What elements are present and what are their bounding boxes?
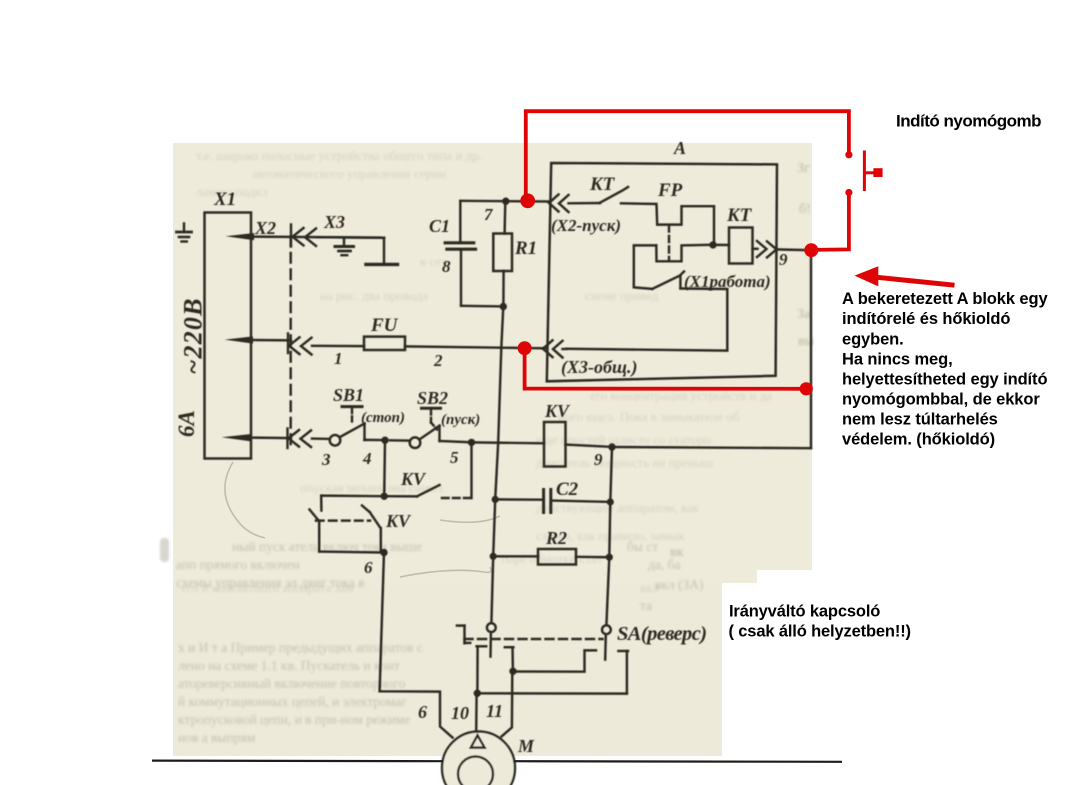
svg-text:( csak álló helyzetben!!): ( csak álló helyzetben!!) (729, 623, 911, 641)
capacitor C2 (495, 490, 610, 513)
svg-text:indítórelé és hőkioldó: indítórelé és hőkioldó (842, 310, 1010, 328)
switch SA left pole (487, 623, 496, 656)
svg-text:та: та (640, 598, 652, 613)
svg-text:2: 2 (433, 351, 443, 370)
svg-text:A: A (673, 138, 686, 158)
svg-text:9: 9 (594, 450, 603, 469)
pushbutton SB1 (stop) (330, 407, 365, 446)
svg-text:9: 9 (779, 250, 788, 269)
wire 2 from fuse to A block (405, 346, 546, 348)
red node on wire 2 (518, 341, 532, 355)
svg-text:(Х3-общ.): (Х3-общ.) (561, 357, 637, 378)
svg-text:helyettesítheted egy indító: helyettesítheted egy indító (842, 371, 1047, 389)
contact X1-rabota (567, 272, 728, 351)
contact KT (NC) in block (569, 187, 629, 203)
contact KV reversing (linked) (310, 496, 385, 553)
node 6 junction (380, 549, 387, 556)
svg-text:й коммутационных цепей, и элек: й коммутационных цепей, и электромаг (178, 694, 407, 709)
pushbutton SB2 (start) (390, 408, 441, 448)
wire node5 to relay KV coil (472, 441, 545, 444)
node junction at holding contact (381, 493, 388, 500)
svg-text:C1: C1 (429, 216, 450, 236)
wire terminal 10 row (477, 692, 627, 695)
wire node4 down to KV holding contact (383, 440, 386, 496)
wire top node 7 row (460, 200, 549, 203)
SA fixed contact hooks left (477, 646, 514, 691)
red wire from wire2 node to lower right (525, 348, 806, 389)
svg-text:8: 8 (442, 257, 451, 276)
svg-text:т.е. широко полосные устройств: т.е. широко полосные устройства общего т… (196, 148, 482, 163)
wire: neutral row into X1 (arrow) (225, 336, 292, 343)
svg-text:védelem. (hőkioldó): védelem. (hőkioldó) (842, 431, 995, 449)
SA fixed contact hook right (618, 651, 628, 693)
svg-text:KV: KV (544, 401, 571, 421)
svg-text:egyben.: egyben. (842, 330, 904, 348)
page edge smudge (160, 538, 169, 562)
connector X1 box (205, 213, 252, 459)
wire riser from terminal 9 red node down (810, 251, 812, 448)
svg-text:ктропусковой цепи, и в при-ном: ктропусковой цепи, и в при-ном режиме (178, 712, 410, 727)
ghost print texture (181, 148, 772, 595)
contact KV holding (NO) (321, 442, 471, 498)
red pushbutton cap (873, 168, 882, 177)
svg-text:(пуск): (пуск) (441, 412, 480, 428)
ghost marks at scan right edge (670, 161, 815, 560)
svg-text:Зг: Зг (797, 161, 810, 176)
svg-text:вкл (ЗА): вкл (ЗА) (655, 577, 704, 592)
node 9 junction (608, 443, 615, 450)
svg-text:SA(реверс): SA(реверс) (617, 623, 706, 645)
node junctions R2 row (490, 553, 497, 560)
svg-text:За: За (797, 307, 811, 322)
node junction terminal 11 (509, 668, 516, 675)
red pushbutton upper contact (845, 151, 852, 158)
entry chevrons (X2-pusk) (549, 195, 569, 213)
svg-text:ного шага. Пока в замыкателе о: ного шага. Пока в замыкателе об (558, 409, 740, 424)
wire terminal 11 into motor (502, 671, 513, 736)
dashed connector plane X2 (289, 237, 291, 445)
svg-text:11: 11 (486, 701, 503, 721)
node junction terminal 10 (474, 690, 481, 697)
block A outline (547, 163, 777, 381)
exit chevrons (X3-obsh) (543, 340, 567, 357)
wire KV coil to node 9 (566, 445, 613, 447)
wire terminal 10 into motor (475, 693, 478, 731)
exit chevrons to terminal 9 (753, 241, 812, 257)
svg-text:атореверсивный включение повто: атореверсивный включение повторного (178, 676, 406, 691)
wire node6 down to motor terminal 6 (380, 553, 453, 738)
svg-text:лено на схеме 1.1 кв. Пускател: лено на схеме 1.1 кв. Пускатель и конт (178, 658, 400, 673)
svg-text:х и И т а Пример предыдущих ап: х и И т а Пример предыдущих аппаратов с (178, 640, 423, 655)
svg-text:3: 3 (321, 450, 331, 469)
wire terminal 11 loop to right hook (513, 650, 596, 671)
svg-text:вк: вк (670, 545, 684, 560)
SA mechanical link dashed (465, 638, 603, 640)
svg-text:X3: X3 (323, 212, 345, 232)
wire: phase row into X1 (arrow) (226, 233, 385, 240)
svg-text:R2: R2 (545, 528, 567, 548)
svg-text:KV: KV (400, 469, 427, 489)
svg-text:nyomógombbal, de ekkor: nyomógombbal, de ekkor (842, 391, 1040, 409)
svg-text:6: 6 (418, 702, 427, 722)
node junction under R1 (500, 303, 507, 310)
wire X2-X3 top row (317, 236, 384, 239)
svg-text:4: 4 (362, 449, 372, 468)
svg-text:действующим аппаратом, вак: действующим аппаратом, вак (536, 500, 700, 515)
svg-text:6А: 6А (174, 410, 199, 437)
red node lower right (800, 382, 813, 395)
svg-text:схеме привед: схеме привед (585, 288, 659, 303)
svg-text:Irányváltó kapcsoló: Irányváltó kapcsoló (729, 603, 880, 621)
red arrow pointing to block A (855, 266, 955, 286)
bottom rule right of motor (514, 760, 842, 763)
wire SB2 to node 5 (440, 441, 473, 442)
svg-text:nem lesz túltarhelés: nem lesz túltarhelés (842, 411, 998, 429)
red wire from button down to terminal 9 (812, 195, 849, 250)
svg-text:апп прямого включен: апп прямого включен (176, 557, 300, 572)
svg-text:автоматического управления сер: автоматического управления серии (252, 166, 446, 181)
svg-text:1: 1 (334, 349, 343, 368)
svg-text:SB2: SB2 (417, 388, 448, 408)
switch SA right pole (602, 625, 611, 659)
faint pencil scratches (225, 462, 500, 577)
wire row3 to SB1 (312, 437, 330, 440)
ground symbol on X3 wire (335, 239, 354, 256)
note: block A explanation (842, 290, 1048, 449)
node junctions C2 row (492, 496, 499, 503)
svg-text:Ha nincs meg,: Ha nincs meg, (842, 350, 953, 368)
wire right riser node9 to SA right (606, 447, 612, 625)
svg-text:на рис. два провода: на рис. два провода (320, 288, 428, 303)
svg-text:(Х2-пуск): (Х2-пуск) (551, 216, 621, 235)
svg-text:Indító nyomógomb: Indító nyomógomb (896, 112, 1041, 131)
svg-text:SB1: SB1 (333, 385, 364, 405)
red node on wire 7 (520, 193, 535, 208)
resistor R2 (493, 549, 609, 565)
relay coil KT (713, 228, 753, 264)
svg-text:6: 6 (364, 558, 373, 577)
heater FP meander (621, 203, 714, 289)
SA actuator bracket (457, 626, 470, 644)
red pushbutton lower contact (845, 189, 852, 196)
resistor R1 (493, 201, 512, 306)
capacitor C1 (445, 201, 503, 306)
red pushbutton plunger (864, 151, 874, 192)
svg-text:схемы управления эл двиг тока: схемы управления эл двиг тока в (176, 575, 365, 590)
connector pins row2 (288, 334, 312, 355)
svg-text:X1: X1 (213, 189, 236, 210)
node junction FP-KT (709, 241, 716, 248)
svg-text:(Х1работа): (Х1работа) (684, 272, 771, 291)
svg-text:б!: б! (799, 202, 811, 217)
svg-text:еще простей шлисто со статорн: еще простей шлисто со статорн (536, 432, 711, 447)
node 4 junction (381, 437, 388, 444)
wire riser R1 node down to SA left (491, 307, 503, 623)
motor M (442, 732, 515, 785)
svg-text:FU: FU (370, 315, 399, 336)
connector pins row3 (288, 429, 312, 449)
svg-text:FP: FP (657, 180, 683, 201)
svg-text:M: M (517, 736, 535, 756)
relay coil KV (544, 422, 566, 467)
wire SB1 to node 4 (365, 439, 386, 442)
red wire from node7 up and across (526, 111, 849, 200)
svg-text:A bekeretezett A blokk egy: A bekeretezett A blokk egy (842, 290, 1048, 308)
svg-text:(стоп): (стоп) (361, 410, 405, 426)
svg-text:~220В: ~220В (179, 297, 208, 374)
wire: third row into X1 (arrow) (222, 434, 292, 441)
wire node9 to right riser (612, 447, 811, 448)
svg-text:10: 10 (451, 703, 469, 723)
svg-text:KV: KV (385, 511, 412, 531)
node 7 junction (502, 198, 509, 205)
note: reversing switch (729, 603, 911, 641)
fuse FU (364, 337, 405, 350)
svg-text:R1: R1 (514, 238, 537, 259)
node 5 junction (468, 439, 475, 446)
red node terminal 9 (804, 243, 818, 257)
svg-text:C2: C2 (556, 479, 579, 500)
scanned page background (173, 143, 812, 756)
svg-text:5: 5 (450, 448, 459, 467)
ground symbol left of X1 (177, 224, 192, 242)
svg-text:KT: KT (726, 205, 753, 226)
wire X3 end terminal (366, 238, 398, 265)
svg-text:нов а выпрям: нов а выпрям (178, 730, 256, 745)
svg-text:X2: X2 (254, 218, 276, 238)
svg-text:KT: KT (589, 174, 616, 195)
wire row2 to fuse (312, 345, 364, 348)
bottom rule left of motor (152, 759, 443, 762)
svg-text:бы ст: бы ст (627, 539, 658, 554)
connector pins X2 row1 (bar + chevrons) (291, 225, 316, 247)
